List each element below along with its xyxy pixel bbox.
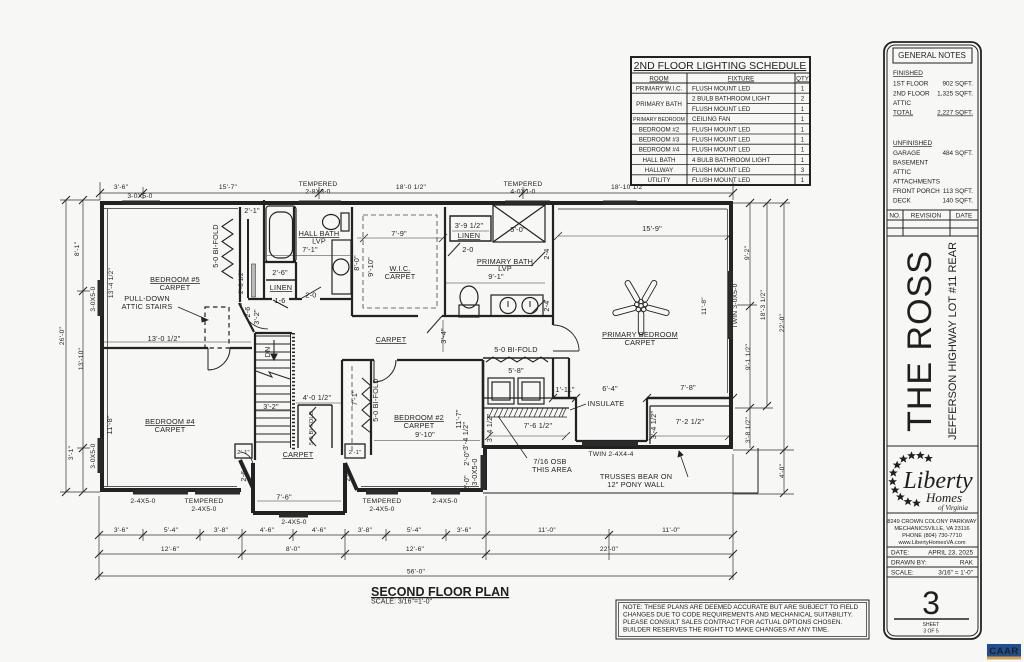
svg-text:4 BULB BATHROOM LIGHT: 4 BULB BATHROOM LIGHT <box>692 157 770 164</box>
svg-text:6'-4": 6'-4" <box>602 384 618 393</box>
svg-text:902 SQFT.: 902 SQFT. <box>942 81 973 88</box>
svg-text:RAK: RAK <box>960 560 974 567</box>
svg-text:3'-4": 3'-4" <box>439 328 448 344</box>
svg-text:5'-4": 5'-4" <box>164 527 179 534</box>
svg-text:15'-9": 15'-9" <box>642 224 662 233</box>
svg-text:QTY: QTY <box>796 76 809 83</box>
svg-text:PRIMARY BEDROOM: PRIMARY BEDROOM <box>633 117 685 123</box>
svg-text:2-8X3-0: 2-8X3-0 <box>305 189 330 196</box>
svg-text:Homes: Homes <box>925 490 962 505</box>
svg-text:2-6: 2-6 <box>343 470 352 481</box>
svg-text:3-0X5-0: 3-0X5-0 <box>470 458 479 485</box>
svg-text:3'-9 1/2": 3'-9 1/2" <box>455 221 484 230</box>
svg-text:2'-1": 2'-1" <box>244 206 260 215</box>
svg-text:11'-0": 11'-0" <box>538 527 556 534</box>
svg-text:2-4X5-0: 2-4X5-0 <box>432 498 457 505</box>
svg-text:1: 1 <box>801 177 805 184</box>
svg-text:11'-8": 11'-8" <box>701 297 708 315</box>
svg-text:5'-4": 5'-4" <box>407 527 422 534</box>
svg-text:BUILDER RESERVES THE RIGHT TO: BUILDER RESERVES THE RIGHT TO MAKE CHANG… <box>623 627 829 634</box>
svg-text:1'-11": 1'-11" <box>555 385 574 394</box>
svg-text:2-0: 2-0 <box>462 245 473 254</box>
svg-text:SCALE: 3/16"=1'-0": SCALE: 3/16"=1'-0" <box>371 599 432 606</box>
svg-text:2-0: 2-0 <box>305 291 316 300</box>
svg-text:1: 1 <box>801 147 805 154</box>
svg-text:9'-10": 9'-10" <box>415 430 435 439</box>
svg-text:CARPET: CARPET <box>404 421 435 430</box>
svg-text:2-4X5-0: 2-4X5-0 <box>130 498 155 505</box>
svg-text:PRIMARY W.I.C.: PRIMARY W.I.C. <box>636 86 683 93</box>
svg-text:5-0 BI-FOLD: 5-0 BI-FOLD <box>309 411 315 445</box>
svg-text:ATTIC: ATTIC <box>893 100 911 107</box>
svg-text:9'-1 1/2": 9'-1 1/2" <box>745 343 752 370</box>
svg-text:7'-6": 7'-6" <box>276 493 292 502</box>
svg-text:ATTACHMENTS: ATTACHMENTS <box>893 179 940 186</box>
svg-text:7'-9": 7'-9" <box>391 229 407 238</box>
svg-text:SHEET: SHEET <box>923 622 940 628</box>
svg-text:9'-2": 9'-2" <box>744 245 751 260</box>
svg-text:GARAGE: GARAGE <box>893 150 920 157</box>
svg-text:UTILITY: UTILITY <box>647 177 670 184</box>
svg-text:FLUSH MOUNT LED: FLUSH MOUNT LED <box>692 127 751 134</box>
svg-text:2ND FLOOR LIGHTING SCHEDULE: 2ND FLOOR LIGHTING SCHEDULE <box>634 60 807 72</box>
svg-text:TEMPERED: TEMPERED <box>363 498 402 505</box>
svg-text:4-0X1-0: 4-0X1-0 <box>510 189 535 196</box>
svg-text:BEDROOM #2: BEDROOM #2 <box>639 127 680 134</box>
svg-text:DECK: DECK <box>893 198 911 205</box>
svg-text:3'-1": 3'-1" <box>68 445 75 460</box>
svg-text:2'-1": 2'-1" <box>349 450 362 456</box>
svg-text:DN: DN <box>263 347 272 358</box>
svg-text:113 SQFT.: 113 SQFT. <box>943 188 973 195</box>
svg-text:2-4: 2-4 <box>542 300 551 311</box>
svg-text:FINISHED: FINISHED <box>893 70 923 77</box>
svg-text:SCALE:: SCALE: <box>891 570 914 577</box>
svg-text:TEMPERED: TEMPERED <box>504 181 543 188</box>
svg-text:3 OF 5: 3 OF 5 <box>923 629 939 635</box>
svg-text:1: 1 <box>801 86 805 93</box>
svg-text:3'-8 1/2": 3'-8 1/2" <box>745 416 752 443</box>
svg-text:2-4X5-0: 2-4X5-0 <box>191 506 216 513</box>
svg-text:BEDROOM #3: BEDROOM #3 <box>639 137 680 144</box>
svg-text:4'-6": 4'-6" <box>312 527 327 534</box>
svg-text:HALL BATH: HALL BATH <box>642 157 675 164</box>
svg-text:JEFFERSON HIGHWAY LOT #11 REAR: JEFFERSON HIGHWAY LOT #11 REAR <box>947 242 959 440</box>
svg-text:REVISION: REVISION <box>911 213 942 220</box>
svg-text:FLUSH MOUNT LED: FLUSH MOUNT LED <box>692 106 751 113</box>
svg-text:NOTE: THESE PLANS ARE DEEMED A: NOTE: THESE PLANS ARE DEEMED ACCURATE BU… <box>623 604 858 611</box>
svg-text:LINEN: LINEN <box>458 231 481 240</box>
svg-text:12'-6": 12'-6" <box>161 546 180 553</box>
svg-text:TWIN 2-4X4-4: TWIN 2-4X4-4 <box>588 451 633 458</box>
svg-text:2-4: 2-4 <box>542 248 551 259</box>
svg-text:1: 1 <box>801 106 805 113</box>
svg-text:5-0 BI-FOLD: 5-0 BI-FOLD <box>211 224 220 268</box>
svg-text:2-6: 2-6 <box>239 470 248 481</box>
svg-text:1ST FLOOR: 1ST FLOOR <box>893 81 929 88</box>
svg-text:MECHANICSVILLE, VA 23116: MECHANICSVILLE, VA 23116 <box>894 526 969 532</box>
svg-text:11'-8": 11'-8" <box>105 415 114 434</box>
svg-text:FRONT PORCH: FRONT PORCH <box>893 188 940 195</box>
svg-text:1-6: 1-6 <box>274 296 285 305</box>
svg-text:CARPET: CARPET <box>155 425 186 434</box>
svg-text:26'-0": 26'-0" <box>59 326 66 345</box>
svg-text:3'-2": 3'-2" <box>263 402 279 411</box>
svg-text:5-0 BI-FOLD: 5-0 BI-FOLD <box>494 345 538 354</box>
svg-text:7'-2 1/2": 7'-2 1/2" <box>676 417 705 426</box>
svg-text:8'-1": 8'-1" <box>74 241 81 256</box>
svg-text:2-4X5-0: 2-4X5-0 <box>369 506 394 513</box>
svg-text:NO.: NO. <box>889 213 901 220</box>
svg-text:CEILING FAN: CEILING FAN <box>692 116 731 123</box>
svg-text:3-0X5-0: 3-0X5-0 <box>90 286 97 311</box>
svg-text:FLUSH MOUNT LED: FLUSH MOUNT LED <box>692 167 751 174</box>
svg-text:22'-0": 22'-0" <box>779 313 786 332</box>
svg-text:8'-0": 8'-0" <box>352 255 361 271</box>
svg-text:7'-8": 7'-8" <box>680 383 696 392</box>
svg-text:FLUSH MOUNT LED: FLUSH MOUNT LED <box>692 177 751 184</box>
svg-text:HALLWAY: HALLWAY <box>645 167 673 174</box>
svg-text:THE ROSS: THE ROSS <box>901 250 939 432</box>
svg-text:DRAWN BY:: DRAWN BY: <box>891 560 927 567</box>
svg-text:1,325 SQFT.: 1,325 SQFT. <box>937 91 973 98</box>
svg-text:GENERAL NOTES: GENERAL NOTES <box>898 51 966 60</box>
svg-text:www.LibertyHomesVA.com: www.LibertyHomesVA.com <box>897 540 965 546</box>
svg-text:3: 3 <box>801 167 805 174</box>
svg-text:3'-8": 3'-8" <box>358 527 373 534</box>
svg-text:3'-2": 3'-2" <box>252 309 261 325</box>
svg-text:TOTAL: TOTAL <box>893 110 913 117</box>
svg-text:PRIMARY BATH: PRIMARY BATH <box>636 101 682 108</box>
svg-text:7'-6 1/2": 7'-6 1/2" <box>524 421 553 430</box>
svg-text:FLUSH MOUNT LED: FLUSH MOUNT LED <box>692 137 751 144</box>
svg-text:11'-7": 11'-7" <box>454 409 463 428</box>
svg-text:2'-8 1/2": 2'-8 1/2" <box>239 270 245 294</box>
svg-text:15'-7": 15'-7" <box>219 184 238 191</box>
svg-text:7'-1": 7'-1" <box>350 390 359 406</box>
svg-text:8'-0": 8'-0" <box>286 546 301 553</box>
svg-text:ATTIC: ATTIC <box>893 169 911 176</box>
svg-text:5-0 BI-FOLD: 5-0 BI-FOLD <box>371 378 380 422</box>
svg-text:484 SQFT.: 484 SQFT. <box>942 150 973 157</box>
svg-text:of Virginia: of Virginia <box>938 504 968 512</box>
svg-text:SECOND FLOOR PLAN: SECOND FLOOR PLAN <box>371 585 509 599</box>
svg-text:3'-8": 3'-8" <box>214 527 229 534</box>
svg-text:TEMPERED: TEMPERED <box>185 498 224 505</box>
svg-text:DATE: DATE <box>956 213 973 220</box>
svg-text:1: 1 <box>801 157 805 164</box>
svg-text:4'-0 1/2": 4'-0 1/2" <box>303 393 332 402</box>
svg-text:2-6: 2-6 <box>243 306 252 317</box>
svg-text:1: 1 <box>801 116 805 123</box>
svg-text:3: 3 <box>922 585 940 621</box>
svg-text:12" PONY WALL: 12" PONY WALL <box>607 480 665 489</box>
svg-text:CHANGES DUE TO CODE REQUIREMEN: CHANGES DUE TO CODE REQUIREMENTS AND MEC… <box>623 612 853 619</box>
svg-text:3'-4 1/2": 3'-4 1/2" <box>649 411 658 440</box>
svg-text:CARPET: CARPET <box>160 283 191 292</box>
svg-text:3-0X5-0: 3-0X5-0 <box>90 443 97 468</box>
svg-text:2ND FLOOR: 2ND FLOOR <box>893 91 930 98</box>
svg-text:CARPET: CARPET <box>283 450 314 459</box>
svg-text:4'-0": 4'-0" <box>779 463 786 478</box>
svg-text:3'-6": 3'-6" <box>114 527 129 534</box>
svg-text:2 BULB BATHROOM LIGHT: 2 BULB BATHROOM LIGHT <box>692 96 770 103</box>
svg-text:18'-3 1/2": 18'-3 1/2" <box>760 289 767 320</box>
svg-text:12'-6": 12'-6" <box>406 546 425 553</box>
svg-text:3-0X5-0: 3-0X5-0 <box>127 193 152 200</box>
svg-text:FLUSH MOUNT LED: FLUSH MOUNT LED <box>692 86 751 93</box>
svg-text:BEDROOM #4: BEDROOM #4 <box>639 147 680 154</box>
svg-text:11'-0": 11'-0" <box>662 527 680 534</box>
svg-text:3'-6": 3'-6" <box>114 184 129 191</box>
svg-text:ROOM: ROOM <box>649 76 668 83</box>
svg-text:2-4X5-0: 2-4X5-0 <box>281 519 306 526</box>
svg-text:4'-6": 4'-6" <box>260 527 275 534</box>
svg-text:13'-4 1/2": 13'-4 1/2" <box>108 267 115 298</box>
svg-text:1: 1 <box>801 137 805 144</box>
svg-text:8249 CROWN COLONY PARKWAY: 8249 CROWN COLONY PARKWAY <box>887 519 977 525</box>
svg-text:1: 1 <box>801 127 805 134</box>
svg-text:INSULATE: INSULATE <box>588 399 625 408</box>
svg-text:BASEMENT: BASEMENT <box>893 160 928 167</box>
svg-text:3'-6": 3'-6" <box>457 527 472 534</box>
svg-text:CAAR: CAAR <box>989 646 1018 657</box>
svg-text:PHONE (804) 730-7710: PHONE (804) 730-7710 <box>902 533 962 539</box>
svg-text:LINEN: LINEN <box>270 283 293 292</box>
svg-text:56'-0": 56'-0" <box>407 569 426 576</box>
svg-text:9'-1": 9'-1" <box>488 272 504 281</box>
svg-text:2,227 SQFT.: 2,227 SQFT. <box>937 110 973 117</box>
svg-text:5'-0": 5'-0" <box>510 225 526 234</box>
svg-text:2: 2 <box>801 96 805 103</box>
svg-text:UNFINISHED: UNFINISHED <box>893 140 932 147</box>
svg-text:PLEASE CONSULT SALES CONTRACT: PLEASE CONSULT SALES CONTRACT FOR ACTUAL… <box>623 619 842 626</box>
svg-text:9'-10": 9'-10" <box>366 257 375 277</box>
svg-text:APRIL 23, 2025: APRIL 23, 2025 <box>928 550 973 557</box>
svg-text:7'-1": 7'-1" <box>302 245 318 254</box>
svg-text:FIXTURE: FIXTURE <box>728 76 754 83</box>
svg-text:DATE:: DATE: <box>891 550 910 557</box>
svg-text:22'-0": 22'-0" <box>600 546 619 553</box>
svg-text:ATTIC STAIRS: ATTIC STAIRS <box>122 302 173 311</box>
svg-text:CARPET: CARPET <box>376 335 407 344</box>
svg-text:CARPET: CARPET <box>625 338 656 347</box>
svg-text:2'-6": 2'-6" <box>272 268 288 277</box>
svg-text:18'-0 1/2": 18'-0 1/2" <box>396 184 427 191</box>
svg-text:13'-0 1/2": 13'-0 1/2" <box>148 334 181 343</box>
svg-text:FLUSH MOUNT LED: FLUSH MOUNT LED <box>692 147 751 154</box>
svg-text:THIS AREA: THIS AREA <box>532 465 572 474</box>
svg-text:TEMPERED: TEMPERED <box>299 181 338 188</box>
svg-text:140 SQFT.: 140 SQFT. <box>942 198 973 205</box>
svg-text:TWIN 3-0X5-0: TWIN 3-0X5-0 <box>732 283 739 328</box>
svg-text:2'-1": 2'-1" <box>237 450 250 456</box>
svg-text:CARPET: CARPET <box>385 272 416 281</box>
svg-text:3/16" = 1'-0": 3/16" = 1'-0" <box>938 570 973 577</box>
svg-text:3'-4 1/2": 3'-4 1/2" <box>485 414 494 443</box>
svg-text:13'-10": 13'-10" <box>78 347 85 370</box>
svg-text:5'-8": 5'-8" <box>508 366 524 375</box>
